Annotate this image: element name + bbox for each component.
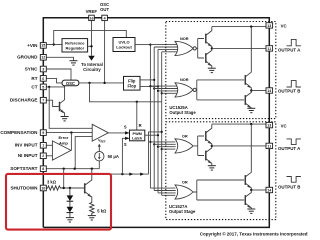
wire zener stack	[69, 188, 71, 218]
junction rail1 top	[149, 44, 151, 46]
junction VREF/ref-reg	[90, 45, 92, 47]
junction latch S2	[121, 173, 123, 175]
svg-text:NOR: NOR	[180, 36, 189, 41]
oscillator OSC box	[62, 80, 79, 86]
pin 5 CT	[40, 84, 46, 90]
50uA current source I1	[95, 152, 104, 161]
transistor QA1 upper	[206, 27, 212, 49]
svg-text:9: 9	[42, 131, 44, 135]
pin 16 VREF	[89, 15, 95, 20]
rail 3 Qbar/latch	[157, 49, 159, 193]
pin 1 INV INPUT	[40, 143, 46, 149]
svg-text:6: 6	[42, 77, 44, 81]
resistor 5k	[90, 202, 94, 216]
junction shutdown node	[63, 187, 65, 189]
svg-text:Amp: Amp	[59, 140, 68, 145]
transistor QD1 upper	[245, 124, 251, 190]
svg-text:Latch: Latch	[132, 137, 143, 141]
wire RT to OSC	[46, 78, 62, 83]
junction VC2 branch	[250, 123, 252, 125]
svg-text:R: R	[139, 123, 142, 128]
svg-text:14: 14	[267, 89, 271, 93]
resistor 3k	[46, 186, 64, 190]
diode D2 zener	[67, 207, 74, 213]
junction output B2 node	[250, 189, 252, 191]
ground output A stage	[208, 68, 216, 72]
op-amp error amplifier	[52, 141, 71, 160]
arrowhead latch S2	[125, 137, 129, 140]
ground symbol below ref regulator	[70, 61, 78, 65]
svg-text:INV INPUT: INV INPUT	[15, 143, 38, 148]
svg-text:11: 11	[267, 144, 271, 148]
wire DISCHARGE to transistor base	[46, 100, 59, 106]
waveform pulse B	[287, 81, 301, 87]
gate NOR A	[175, 41, 193, 55]
wire GROUND pin to ground symbol	[46, 57, 73, 60]
svg-text:12: 12	[41, 56, 45, 60]
svg-text:NOR: NOR	[180, 77, 189, 82]
wire OUTPUT B	[251, 90, 265, 92]
svg-text:13: 13	[267, 124, 271, 128]
pin 4 OSC OUT	[102, 15, 108, 20]
transistor QD2 lower	[245, 190, 251, 209]
junction output A2 node	[211, 145, 213, 147]
wire OSC OUT pin down	[104, 21, 106, 83]
waveform notch A	[287, 139, 301, 145]
pin 10 SHUTDOWN	[40, 185, 46, 191]
wire +VIN to UVLO	[54, 30, 127, 44]
wire OSC to flip flop	[79, 82, 124, 84]
flip flop U2	[124, 76, 141, 90]
junction error amp output	[70, 131, 72, 133]
rail 2 Q	[153, 47, 155, 191]
reference regulator box	[62, 39, 88, 52]
svg-text:VC: VC	[281, 23, 287, 28]
wire OUTPUT A	[212, 47, 266, 49]
svg-text:CT: CT	[31, 84, 37, 89]
wire collector A2 to VC	[212, 123, 269, 125]
svg-text:OUTPUT A: OUTPUT A	[278, 47, 301, 52]
svg-text:3: 3	[42, 67, 44, 71]
wire flip flop Q	[140, 79, 154, 81]
wire COMPENSATION / error amp output to comparator	[46, 132, 92, 134]
ground discharge transistor	[61, 117, 69, 121]
waveform pulse A	[287, 39, 301, 45]
pin 12 GROUND	[40, 55, 46, 61]
wire collector A to VC	[212, 26, 269, 28]
junction softstart/shutdown	[63, 168, 65, 170]
svg-text:OSC: OSC	[66, 81, 75, 86]
svg-text:10: 10	[41, 186, 45, 190]
svg-text:5: 5	[42, 85, 44, 89]
main supply bus (top/right/bottom/left loop)	[43, 18, 269, 228]
svg-text:OUTPUT B: OUTPUT B	[278, 89, 300, 94]
wire OR B output splitter long rails	[193, 180, 244, 200]
svg-text:VREF: VREF	[98, 139, 106, 144]
wire latch output	[145, 134, 158, 136]
svg-text:SYNC: SYNC	[25, 66, 38, 71]
pin 15 +VIN	[40, 43, 46, 49]
junction CT	[48, 86, 50, 88]
wire NOR A output splitter	[196, 39, 204, 59]
junction OSC OUT	[103, 82, 105, 84]
svg-text:OUT: OUT	[100, 7, 109, 12]
wire OUTPUT A2	[212, 145, 266, 147]
junctions NOR B taps	[149, 85, 151, 87]
arrowhead on shutdown line 2	[140, 173, 144, 176]
svg-text:OR: OR	[182, 179, 188, 184]
emitter arrow shutdown	[87, 193, 91, 197]
arrow to internal circuitry	[88, 56, 95, 61]
svg-text:Output Stage: Output Stage	[169, 110, 196, 115]
wire NI INPUT	[46, 155, 52, 157]
junction +VIN branch	[53, 43, 55, 45]
gate input taps NOR A	[150, 45, 178, 52]
pin 7 DISCHARGE	[40, 97, 46, 103]
node VREF feed line	[91, 21, 93, 56]
PWM latch box U3	[130, 130, 145, 141]
transistor QA2 lower	[206, 48, 212, 68]
transistor QC1 upper	[206, 124, 212, 146]
pin 14 OUTPUT B second	[266, 187, 273, 192]
svg-text:OUTPUT A: OUTPUT A	[278, 146, 301, 151]
wire OUTPUT B2	[251, 189, 265, 191]
wire error amp output riser	[70, 133, 72, 151]
ground shutdown emitter	[88, 216, 96, 220]
junction rail4 shutdown	[161, 131, 163, 133]
wire 50uA up arrow	[98, 146, 100, 152]
rail 4 blanking	[161, 52, 163, 196]
svg-text:14: 14	[267, 189, 271, 193]
gate input taps NOR B	[150, 86, 178, 93]
junctions OR A taps	[149, 141, 151, 143]
wire softstart comparator input	[75, 137, 92, 169]
svg-text:8: 8	[42, 167, 44, 171]
gate input taps OR A	[150, 142, 175, 149]
svg-text:VREF: VREF	[86, 9, 98, 14]
wire 50uA to softstart rail	[98, 161, 100, 169]
transistor QC2 lower	[206, 146, 212, 166]
junction rail2 Q	[153, 79, 155, 81]
svg-text:2: 2	[42, 154, 44, 158]
pin 9 COMPENSATION	[40, 130, 46, 136]
gate NOR B	[175, 83, 193, 97]
gate input taps OR B	[150, 188, 175, 195]
junction softstart/comparator	[74, 168, 76, 170]
wire +VIN to reference regulator	[46, 44, 62, 46]
gate OR B	[175, 185, 193, 199]
svg-text:OUTPUT B: OUTPUT B	[278, 184, 300, 189]
wire UVLO output	[135, 44, 150, 46]
comparator PWM	[92, 124, 108, 141]
wire shutdown node to base	[64, 187, 84, 189]
svg-text:15: 15	[41, 44, 45, 48]
pin 2 NI INPUT	[40, 153, 46, 159]
svg-text:S: S	[124, 142, 127, 147]
gate OR A	[175, 139, 193, 153]
wire NOR B output splitter long rails	[196, 80, 244, 100]
transistor Q shutdown	[85, 169, 92, 202]
pin 13 VC	[266, 23, 273, 28]
wire ref-reg to VREF line	[88, 45, 92, 47]
junction rail3 Qbar	[157, 85, 159, 87]
junction zener node	[69, 187, 71, 189]
pin 13 VC second	[266, 122, 273, 127]
ground output A2 stage	[208, 166, 216, 170]
wire latch R input	[136, 102, 138, 130]
wire INV INPUT	[46, 144, 52, 146]
svg-text:DISCHARGE: DISCHARGE	[10, 98, 38, 103]
junction softstart/collector	[91, 168, 93, 170]
rail 1 UVLO	[149, 45, 151, 189]
svg-text:13: 13	[267, 24, 271, 28]
ground output B2 stage	[247, 209, 255, 213]
pin 14 OUTPUT B	[266, 88, 273, 93]
waveform notch B	[287, 177, 301, 183]
svg-text:Output Stage: Output Stage	[169, 209, 196, 214]
transistor Q discharge	[60, 87, 65, 117]
arrowhead latch S1	[125, 131, 129, 134]
svg-text:50 µA: 50 µA	[108, 154, 119, 159]
junction VC branch	[250, 25, 252, 27]
arrowhead on shutdown line 1	[129, 173, 133, 176]
pin 8 SOFTSTART	[40, 166, 46, 172]
shutdown highlight red box	[6, 174, 111, 230]
wire CT ramp to comparator	[49, 87, 92, 128]
junction output B node	[250, 89, 252, 91]
svg-text:11: 11	[267, 47, 271, 51]
wire OSC blanking line	[90, 83, 162, 102]
wire shutdown line riser to rail4	[149, 132, 162, 174]
svg-text:5 kΩ: 5 kΩ	[97, 209, 107, 214]
svg-text:SHUTDOWN: SHUTDOWN	[10, 185, 38, 190]
svg-text:GROUND: GROUND	[17, 55, 38, 60]
UVLO lockout box	[113, 38, 135, 52]
wire OR A output splitter	[193, 136, 204, 156]
ground output B stage	[247, 108, 255, 112]
svg-text:Copyright © 2017, Texas Instru: Copyright © 2017, Texas Instruments Inco…	[200, 230, 308, 236]
wire latch S2 riser	[122, 138, 129, 174]
wire shutdown collector to latch line	[92, 173, 149, 175]
svg-text:7: 7	[42, 99, 44, 103]
pin 6 RT	[40, 76, 46, 82]
svg-text:3 kΩ: 3 kΩ	[47, 180, 57, 185]
pin 3 SYNC	[40, 66, 46, 72]
svg-text:+VIN: +VIN	[27, 43, 38, 48]
wire flip flop Qbar	[140, 85, 158, 87]
svg-text:S: S	[124, 124, 127, 129]
svg-text:1: 1	[42, 144, 44, 148]
svg-text:VC: VC	[281, 123, 287, 128]
svg-text:Circuitry: Circuitry	[83, 67, 101, 72]
transistor QB2 lower	[245, 91, 251, 109]
emitter arrow discharge	[60, 109, 64, 113]
dashed box UC1525A output stage	[166, 22, 276, 119]
wire softstart to shutdown node	[63, 169, 65, 188]
pin 11 OUTPUT A	[266, 46, 273, 51]
svg-text:Flop: Flop	[127, 84, 136, 89]
junction latch R feed	[136, 101, 138, 103]
junction rail3 latch	[157, 134, 159, 136]
svg-text:16: 16	[90, 16, 94, 20]
svg-text:RT: RT	[31, 76, 37, 81]
ground zener stack	[66, 218, 74, 222]
svg-text:NI INPUT: NI INPUT	[18, 153, 38, 158]
wire SOFTSTART rail	[46, 168, 99, 170]
wire SYNC to OSC	[46, 69, 71, 80]
svg-text:OR: OR	[182, 134, 188, 139]
transistor QB1 upper	[245, 27, 251, 91]
pin 11 OUTPUT A second	[266, 143, 273, 148]
dashed box UC1527A output stage	[166, 122, 276, 220]
svg-text:SOFTSTART: SOFTSTART	[10, 166, 37, 171]
diode D1 zener	[67, 195, 74, 201]
junction OSC blanking	[88, 82, 90, 84]
svg-text:4: 4	[104, 16, 106, 20]
svg-text:COMPENSATION: COMPENSATION	[0, 130, 38, 135]
wire CT to OSC	[46, 86, 64, 87]
wire comparator output to latch	[108, 132, 129, 134]
svg-text:PWM: PWM	[133, 132, 142, 136]
svg-text:Regulator: Regulator	[65, 46, 84, 51]
svg-text:Lockout: Lockout	[116, 45, 132, 50]
junction output A node	[211, 47, 213, 49]
